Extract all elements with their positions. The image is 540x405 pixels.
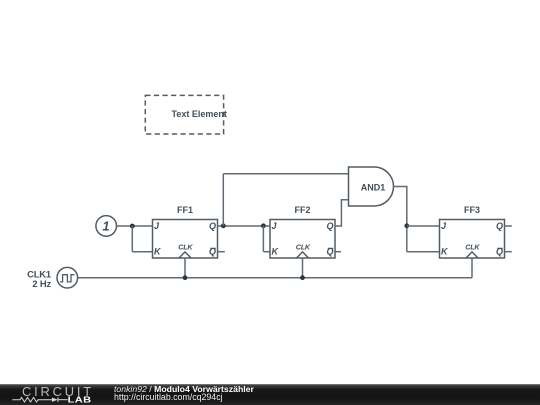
clock source CLK1	[57, 267, 78, 288]
wire FF2 Qbar stub	[335, 251, 341, 253]
footer url	[114, 393, 223, 402]
svg-text:Q: Q	[326, 221, 333, 231]
wire clock riser FF1	[184, 258, 186, 278]
footer bar	[0, 384, 540, 405]
node 1	[96, 216, 117, 237]
clock edge marker	[179, 252, 191, 258]
wire clock line	[78, 277, 472, 279]
svg-text:CLK: CLK	[296, 243, 311, 252]
svg-text:Q: Q	[496, 221, 503, 231]
svg-text:CLK: CLK	[178, 243, 193, 252]
svg-text:LAB: LAB	[68, 396, 92, 405]
wire FF3 Qbar stub	[505, 251, 512, 253]
svg-text:AND1: AND1	[361, 183, 386, 193]
clock edge marker	[297, 252, 309, 258]
junction	[300, 275, 305, 280]
wire clock riser FF3	[471, 258, 473, 278]
svg-text:Q: Q	[209, 221, 216, 231]
wire FF1 Q to FF2 J	[218, 225, 271, 227]
wire AND1 output	[394, 187, 407, 252]
svg-text:FF3: FF3	[464, 205, 480, 215]
wire junction down	[131, 226, 133, 252]
wire FF2 Q to AND1 input B	[335, 200, 349, 226]
svg-text:2 Hz: 2 Hz	[32, 278, 51, 289]
wire FF1 Qbar stub	[218, 251, 225, 253]
svg-text:CLK: CLK	[465, 243, 480, 252]
wire junction up	[222, 174, 224, 226]
wire to FF1 K	[132, 251, 152, 253]
svg-text:FF1: FF1	[177, 205, 193, 215]
wire FF3 Q stub	[505, 225, 512, 227]
svg-text:1: 1	[102, 218, 109, 233]
junction	[404, 223, 409, 228]
text element box	[145, 95, 223, 134]
flip-flop FF3	[440, 205, 505, 258]
wire top to AND1 input A	[223, 173, 348, 175]
wire junction down	[262, 226, 264, 252]
junction	[221, 223, 226, 228]
and-gate AND1	[349, 167, 394, 206]
wire to FF3 K	[407, 251, 440, 253]
svg-text:Text Element: Text Element	[172, 109, 227, 119]
flip-flop FF1	[153, 205, 218, 258]
footer title	[114, 385, 254, 394]
junction	[130, 224, 135, 229]
wire clock riser FF2	[302, 258, 304, 278]
junction	[183, 275, 188, 280]
circuitlab logo	[0, 384, 110, 405]
wire node1 to FF1 J	[117, 225, 153, 227]
junction	[261, 223, 266, 228]
clock edge marker	[466, 252, 478, 258]
flip-flop FF2	[270, 205, 335, 258]
wire to FF3 J	[407, 225, 440, 227]
svg-text:FF2: FF2	[294, 205, 310, 215]
wire to FF2 K	[263, 251, 270, 253]
